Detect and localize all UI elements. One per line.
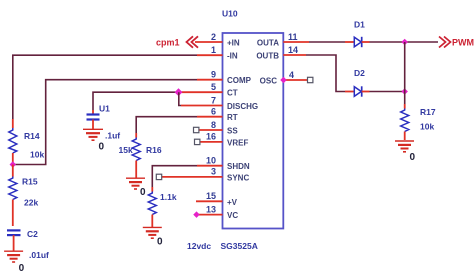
svg-text:D1: D1: [354, 20, 365, 30]
resistor R18 1.1k: [148, 187, 177, 227]
svg-text:.1uf: .1uf: [105, 131, 120, 141]
wire -IN to left column: [13, 55, 197, 119]
diode D1: [345, 20, 370, 48]
node D1/R17 junction: [401, 39, 408, 46]
resistor R14: [9, 119, 45, 165]
svg-text:OSC: OSC: [260, 77, 278, 86]
svg-text:1.1k: 1.1k: [160, 192, 177, 202]
svg-text:U10: U10: [222, 9, 238, 19]
resistor R17: [401, 104, 436, 140]
svg-text:OUTA: OUTA: [257, 39, 279, 48]
pin 6 RT stub: [197, 116, 223, 118]
pin 9 COMP stub: [197, 79, 223, 81]
node VC pin endpoint dot: [193, 211, 200, 218]
ground below R17: [395, 141, 414, 152]
pin 1 -IN stub: [197, 54, 223, 56]
svg-text:16: 16: [206, 132, 216, 142]
svg-text:0: 0: [410, 152, 416, 163]
no-connect square pin 16: [195, 139, 200, 144]
svg-text:0: 0: [140, 187, 146, 198]
wire SHDN to 1.1k resistor: [152, 166, 197, 187]
pin 7 DISCHG stub: [181, 105, 223, 107]
ground below C2: [4, 251, 23, 262]
svg-text:.01uf: .01uf: [29, 250, 49, 260]
svg-text:VREF: VREF: [227, 138, 248, 147]
svg-text:3: 3: [211, 167, 216, 177]
pin 5 CT stub: [182, 91, 223, 93]
node R14/R15 junction: [10, 161, 17, 168]
svg-text:10: 10: [206, 156, 216, 166]
no-connect square pin 8: [194, 127, 199, 132]
svg-text:10k: 10k: [420, 122, 434, 132]
wire D1 cathode to PWM: [370, 41, 439, 43]
pin 11 OUTA stub: [283, 41, 309, 43]
wire PWM node down to R17: [404, 42, 406, 104]
no-connect square pin 4: [308, 77, 313, 82]
ground below R16: [126, 178, 145, 189]
svg-text:cpm1: cpm1: [156, 38, 180, 48]
resistor R15: [9, 165, 39, 227]
svg-text:11: 11: [288, 32, 298, 42]
wire CT to U1 cap: [93, 92, 182, 110]
no-connect square pin 3: [156, 174, 161, 179]
wire D2 cathode to R17 node: [370, 91, 405, 93]
svg-text:+IN: +IN: [227, 39, 240, 48]
svg-text:OUTB: OUTB: [256, 52, 279, 61]
svg-text:-IN: -IN: [227, 52, 238, 61]
cpm1 port arrow: [187, 36, 199, 47]
svg-text:R15: R15: [22, 177, 38, 187]
svg-text:22k: 22k: [24, 198, 38, 208]
wire DISCHG up to CT: [179, 92, 181, 105]
svg-text:VC: VC: [227, 211, 238, 220]
capacitor C2: [7, 229, 49, 260]
svg-text:15k: 15k: [119, 145, 133, 155]
wire RT to R16: [136, 117, 197, 133]
op-amp U10 IC body SG3525A: [223, 33, 284, 229]
pin 2 +IN stub: [195, 41, 223, 43]
svg-text:5: 5: [211, 82, 216, 92]
svg-text:1: 1: [211, 45, 216, 55]
svg-text:R17: R17: [420, 107, 436, 117]
svg-text:DISCHG: DISCHG: [227, 102, 258, 111]
svg-text:6: 6: [211, 107, 216, 117]
PWM port arrow: [439, 37, 451, 48]
svg-text:U1: U1: [99, 104, 110, 114]
svg-text:2: 2: [211, 32, 216, 42]
capacitor U1: [87, 104, 121, 141]
pin 14 OUTB stub: [283, 54, 306, 56]
node OSC pin junction dot: [280, 77, 287, 84]
pin 3 SYNC stub: [162, 176, 223, 178]
pin 15 +V stub: [196, 200, 223, 202]
pin 13 VC stub: [197, 214, 223, 216]
ground below 1.1k: [143, 227, 162, 238]
svg-text:C2: C2: [27, 229, 38, 239]
svg-text:RT: RT: [227, 113, 238, 122]
pin 10 SHDN stub: [197, 165, 223, 167]
svg-text:PWM: PWM: [452, 38, 474, 48]
svg-text:SG3525A: SG3525A: [221, 241, 258, 251]
svg-text:12vdc: 12vdc: [187, 241, 211, 251]
svg-text:9: 9: [211, 70, 216, 80]
wire OUTA to PWM output: [309, 41, 345, 43]
svg-text:13: 13: [206, 204, 216, 214]
node D2/R17 corner junction: [401, 88, 408, 95]
svg-text:SYNC: SYNC: [227, 173, 249, 182]
svg-text:+V: +V: [227, 198, 238, 207]
diode D2: [345, 68, 370, 97]
ground below U1: [83, 129, 103, 140]
svg-text:15: 15: [206, 191, 216, 201]
svg-text:COMP: COMP: [227, 76, 252, 85]
svg-text:SHDN: SHDN: [227, 162, 250, 171]
resistor R16: [119, 133, 162, 178]
svg-text:R16: R16: [146, 145, 162, 155]
svg-text:10k: 10k: [30, 150, 44, 160]
pin 8 SS stub: [199, 129, 223, 131]
svg-text:SS: SS: [227, 127, 238, 136]
wire OUTB to D2: [306, 55, 345, 92]
pin 4 OSC stub: [283, 79, 307, 81]
svg-text:0: 0: [99, 141, 105, 152]
pin 16 VREF stub: [200, 141, 223, 143]
svg-text:4: 4: [289, 70, 294, 80]
svg-text:0: 0: [19, 263, 25, 274]
svg-text:CT: CT: [227, 89, 238, 98]
svg-text:R14: R14: [24, 131, 40, 141]
svg-text:8: 8: [211, 120, 216, 130]
svg-text:7: 7: [211, 95, 216, 105]
wire COMP to R14/R15 junction: [14, 80, 197, 165]
svg-text:14: 14: [288, 45, 298, 55]
svg-text:D2: D2: [354, 68, 365, 78]
svg-text:0: 0: [157, 237, 163, 248]
node CT/DISCHG junction: [175, 88, 183, 96]
